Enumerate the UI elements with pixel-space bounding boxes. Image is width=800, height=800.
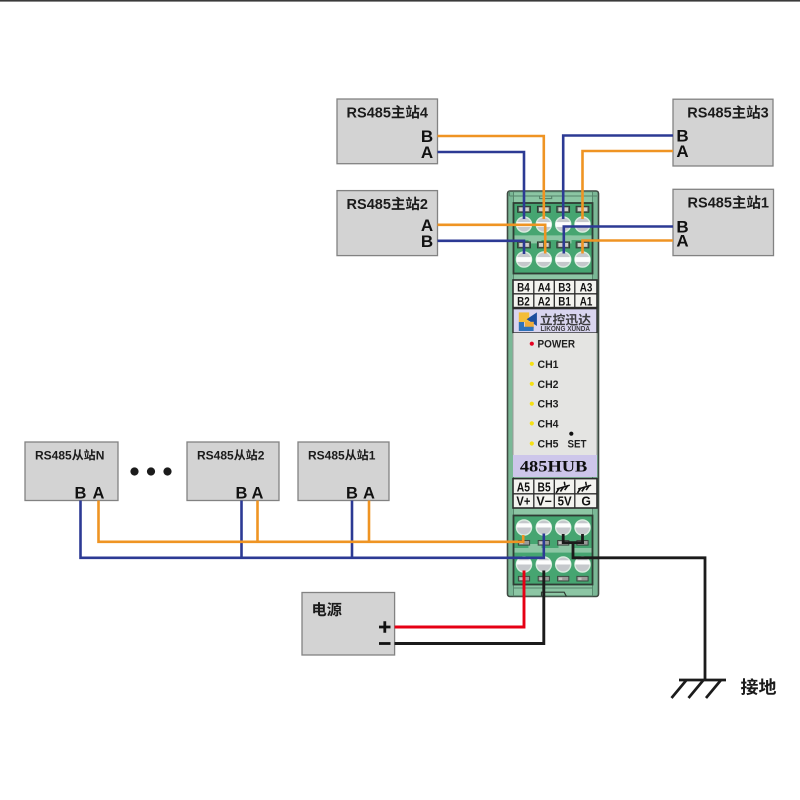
logo LIKONG XUNDA bbox=[513, 309, 597, 334]
terminals B2 A2 B1 A1 bbox=[516, 252, 531, 267]
svg-text:A: A bbox=[676, 232, 688, 251]
bottom terminal block (A5 B5 earth earth / V+ V- 5V G) bbox=[514, 516, 593, 585]
earth ground symbol bbox=[672, 680, 727, 698]
terminals V+ V- 5V G bbox=[516, 557, 531, 572]
module body bbox=[508, 191, 599, 597]
svg-text:B3: B3 bbox=[558, 283, 571, 295]
box RS485 master 2 bbox=[337, 191, 438, 256]
wire earth strap and ground run (black) bbox=[562, 534, 705, 680]
top label table bbox=[513, 280, 597, 308]
svg-text:4: 4 bbox=[420, 105, 428, 121]
clamps row B4 A4 B3 A3 bbox=[518, 206, 531, 212]
svg-text:1: 1 bbox=[369, 448, 376, 462]
wire master3 B to B3 (navy) bbox=[563, 136, 673, 220]
svg-text:RS485: RS485 bbox=[347, 197, 391, 213]
wire master2 A to A2 (orange) bbox=[438, 225, 546, 254]
wire slave2 A drop (orange) bbox=[256, 501, 259, 542]
clamps row B2 A2 B1 A1 bbox=[518, 242, 531, 248]
box RS485 slave N bbox=[25, 442, 118, 502]
svg-text:2: 2 bbox=[258, 448, 265, 462]
svg-text:A: A bbox=[363, 484, 375, 502]
svg-text:G: G bbox=[581, 495, 591, 509]
svg-text:N: N bbox=[96, 448, 105, 462]
clamps row A5 B5 earth earth bbox=[518, 541, 529, 546]
svg-text:A: A bbox=[676, 142, 688, 161]
wire master1 A to A1 (orange) bbox=[583, 241, 674, 254]
svg-text:A: A bbox=[252, 484, 264, 502]
svg-text:1: 1 bbox=[761, 196, 769, 212]
wire slave B bus (navy) bbox=[81, 501, 544, 558]
wire V+ to power + (red) bbox=[395, 571, 524, 628]
wire master4 B to A4 (orange) bbox=[438, 136, 544, 219]
wire master4 A to B4 (navy) bbox=[438, 152, 525, 219]
box RS485 slave 2 bbox=[187, 442, 279, 502]
top terminal block (B4 A4 B3 A3 / B2 A2 B1 A1) bbox=[514, 203, 593, 274]
485HUB label bbox=[513, 455, 597, 477]
svg-text:A1: A1 bbox=[580, 296, 593, 308]
svg-text:A: A bbox=[421, 143, 433, 162]
terminals B4 A4 B3 A3 bbox=[516, 217, 531, 232]
svg-text:2: 2 bbox=[420, 197, 428, 213]
svg-text:CH4: CH4 bbox=[538, 418, 560, 430]
ellipsis dots bbox=[130, 467, 171, 475]
svg-text:B4: B4 bbox=[517, 283, 530, 295]
box RS485 slave 1 bbox=[298, 442, 389, 502]
terminals A5 B5 earth earth bbox=[516, 520, 531, 535]
svg-text:RS485: RS485 bbox=[688, 196, 732, 212]
svg-text:B5: B5 bbox=[538, 480, 551, 494]
clamps row V+ V- 5V G bbox=[518, 576, 529, 581]
svg-text:B: B bbox=[236, 484, 248, 502]
svg-text:5V: 5V bbox=[558, 495, 573, 509]
svg-text:CH3: CH3 bbox=[538, 399, 559, 411]
svg-text:SET: SET bbox=[568, 439, 587, 451]
svg-text:V+: V+ bbox=[516, 495, 530, 509]
svg-text:LIKONG XUNDA: LIKONG XUNDA bbox=[541, 324, 591, 333]
svg-text:A2: A2 bbox=[538, 296, 551, 308]
box RS485 master 4 bbox=[337, 99, 438, 164]
wire slave A bus (orange) bbox=[99, 501, 524, 542]
svg-text:A3: A3 bbox=[580, 283, 593, 295]
svg-text:B1: B1 bbox=[558, 296, 571, 308]
svg-text:RS485: RS485 bbox=[347, 105, 391, 121]
svg-text:POWER: POWER bbox=[538, 339, 576, 351]
wire master3 A to A3 (orange) bbox=[583, 151, 674, 219]
RS485 hub module 485HUB bbox=[508, 191, 599, 597]
svg-text:CH5: CH5 bbox=[538, 439, 559, 451]
svg-text:V−: V− bbox=[536, 495, 552, 509]
LED panel POWER CH1-CH5 SET bbox=[513, 333, 597, 455]
svg-text:A5: A5 bbox=[517, 480, 530, 494]
svg-text:CH2: CH2 bbox=[538, 379, 559, 391]
svg-text:RS485: RS485 bbox=[197, 448, 234, 462]
wire slave2 B drop (navy) bbox=[240, 501, 243, 558]
wire master1 B to B1 (navy) bbox=[564, 227, 673, 254]
svg-text:B2: B2 bbox=[517, 296, 530, 308]
svg-text:RS485: RS485 bbox=[308, 448, 345, 462]
svg-text:RS485: RS485 bbox=[35, 448, 72, 462]
wire slave1 B drop (navy) bbox=[351, 501, 354, 558]
box RS485 master 1 bbox=[673, 189, 774, 255]
svg-text:A4: A4 bbox=[538, 283, 551, 295]
wire slave1 A drop (orange) bbox=[368, 501, 371, 542]
svg-text:485HUB: 485HUB bbox=[520, 459, 588, 476]
power supply box 电源 bbox=[302, 593, 395, 656]
wire V- to power - (black) bbox=[395, 571, 544, 644]
svg-text:3: 3 bbox=[761, 106, 769, 122]
bottom label table (A5 B5 earth earth / V+ V- 5V G) bbox=[513, 479, 597, 509]
top border bar bbox=[0, 0, 800, 2]
svg-text:B: B bbox=[346, 484, 358, 502]
svg-text:A: A bbox=[93, 484, 105, 502]
box RS485 master 3 bbox=[673, 99, 773, 166]
svg-text:CH1: CH1 bbox=[538, 359, 559, 371]
svg-text:B: B bbox=[421, 232, 433, 251]
svg-text:RS485: RS485 bbox=[687, 106, 731, 122]
wire master2 B to B2 (navy) bbox=[438, 241, 525, 254]
label 接地 bbox=[741, 678, 776, 695]
svg-text:B: B bbox=[75, 484, 87, 502]
